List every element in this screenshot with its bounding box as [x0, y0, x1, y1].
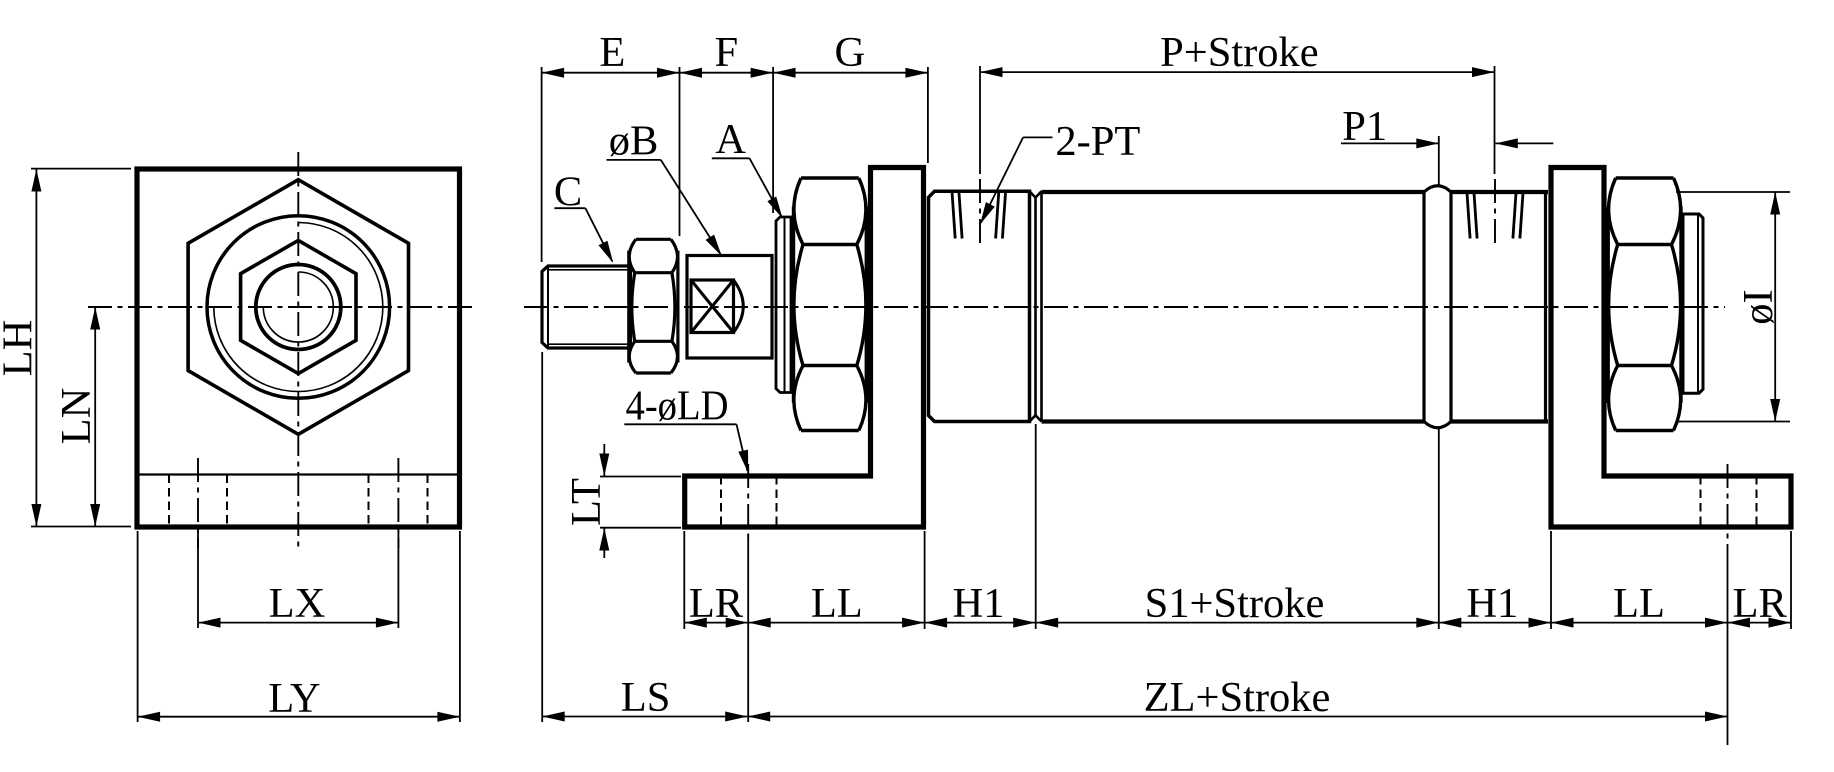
- svg-text:P1: P1: [1342, 103, 1387, 150]
- svg-text:øB: øB: [609, 117, 659, 164]
- svg-text:LL: LL: [1613, 580, 1665, 627]
- svg-text:C: C: [554, 168, 582, 215]
- svg-text:LS: LS: [621, 674, 671, 721]
- svg-text:H1: H1: [1466, 580, 1518, 627]
- svg-text:LX: LX: [269, 580, 326, 627]
- svg-text:F: F: [714, 29, 738, 76]
- svg-text:LT: LT: [563, 478, 610, 526]
- svg-text:P+Stroke: P+Stroke: [1160, 29, 1319, 76]
- svg-text:2-PT: 2-PT: [1055, 118, 1140, 165]
- svg-text:LR: LR: [689, 580, 744, 627]
- svg-text:LR: LR: [1733, 580, 1788, 627]
- svg-text:LY: LY: [268, 675, 320, 722]
- svg-text:LH: LH: [0, 320, 42, 377]
- svg-text:A: A: [715, 116, 746, 163]
- svg-text:E: E: [599, 29, 625, 76]
- svg-text:S1+Stroke: S1+Stroke: [1145, 580, 1325, 627]
- svg-text:LN: LN: [53, 388, 100, 445]
- svg-text:G: G: [835, 29, 866, 76]
- svg-text:H1: H1: [953, 580, 1005, 627]
- svg-text:øI: øI: [1735, 289, 1782, 324]
- svg-text:4-øLD: 4-øLD: [626, 383, 729, 430]
- svg-text:ZL+Stroke: ZL+Stroke: [1144, 674, 1331, 721]
- svg-text:LL: LL: [811, 580, 863, 627]
